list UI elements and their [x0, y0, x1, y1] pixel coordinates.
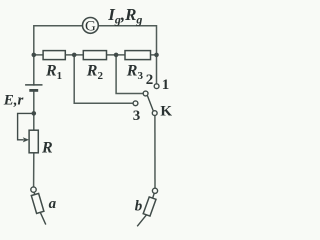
- svg-text:R: R: [41, 140, 53, 157]
- node: junction dot R1-R2: [72, 53, 77, 58]
- switch contact 3: [133, 101, 138, 106]
- probe a terminal circle: [31, 187, 36, 192]
- svg-text:a: a: [49, 196, 57, 212]
- switch contact 1: [154, 84, 159, 89]
- probe a link: [34, 192, 35, 195]
- battery E,r: [25, 85, 42, 91]
- svg-text:2: 2: [146, 72, 154, 88]
- svg-text:G: G: [85, 19, 96, 35]
- wire battery to junction: [33, 90, 35, 113]
- probe b body: [143, 197, 156, 216]
- wire drop from R1-R2 junction to contact 3: [74, 55, 133, 103]
- wire junction to rheostat: [33, 113, 35, 130]
- wire top horizontal left segment: [34, 26, 83, 55]
- rheostat R (variable resistor): [29, 130, 38, 153]
- galvanometer G: [83, 18, 99, 34]
- svg-text:3: 3: [133, 108, 141, 124]
- switch K lever: [147, 95, 153, 111]
- rheostat wiper arrow: [18, 113, 34, 139]
- probe a body: [31, 193, 44, 213]
- probe b terminal circle: [152, 188, 157, 193]
- switch contact 2: [143, 91, 148, 96]
- wire rheostat to probe a: [33, 153, 35, 187]
- probe a tip: [40, 212, 46, 224]
- svg-text:b: b: [135, 198, 143, 214]
- wire resistor row: [34, 54, 157, 56]
- svg-text:E,r: E,r: [3, 93, 24, 109]
- resistor R3: [125, 51, 151, 60]
- resistor R2: [83, 51, 106, 60]
- wire drop from R2-R3 junction to contact 2: [116, 55, 143, 94]
- probe b tip: [137, 215, 146, 227]
- svg-text:K: K: [160, 103, 172, 119]
- paper background: [0, 0, 175, 228]
- resistor R1: [43, 51, 65, 60]
- wire pivot K to probe b: [154, 116, 156, 189]
- switch K pivot: [152, 111, 157, 116]
- wire top horizontal right segment: [99, 26, 157, 84]
- probe b link: [153, 193, 155, 198]
- node: junction dot R2-R3: [114, 53, 119, 58]
- node: junction dot battery/rheostat tap: [32, 111, 37, 116]
- node: junction dot left rail / resistor row: [32, 53, 37, 58]
- wire left rail to battery: [33, 55, 35, 85]
- node: junction dot right rail: [154, 53, 159, 58]
- svg-text:1: 1: [162, 77, 170, 93]
